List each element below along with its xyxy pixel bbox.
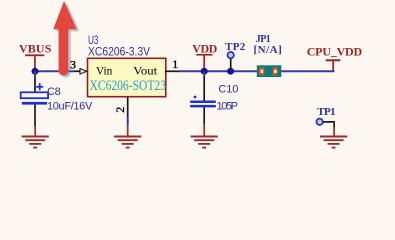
power port VBUS bar xyxy=(25,54,44,56)
big red arrow annotation xyxy=(53,1,76,76)
svg-text:[N/A]: [N/A] xyxy=(254,44,282,56)
capacitor C8 bottom plate xyxy=(22,102,47,105)
svg-text:VBUS: VBUS xyxy=(19,42,52,56)
pin TP2 xyxy=(230,58,232,69)
svg-text:TP2: TP2 xyxy=(225,41,246,53)
pin C8 top xyxy=(34,77,36,92)
capacitor C10 dot xyxy=(194,96,197,99)
jumper JP1 body xyxy=(257,65,282,77)
wire main horizontal net VDD xyxy=(35,70,74,72)
junction node VBUS xyxy=(32,68,39,75)
testpoint TP1 pad xyxy=(316,119,322,125)
pin C8 bottom xyxy=(34,105,36,126)
svg-text:Vin: Vin xyxy=(96,63,112,77)
power port VDD stem xyxy=(203,56,205,71)
capacitor C10 top plate xyxy=(190,101,216,104)
pin 2 line xyxy=(127,97,129,117)
pin C10 bottom xyxy=(203,107,205,124)
junction node TP2 xyxy=(227,68,234,75)
ground below TP1 xyxy=(320,127,347,148)
testpoint TP2 pad xyxy=(228,52,234,58)
capacitor C8 top plate xyxy=(21,92,48,98)
pin 1 line xyxy=(165,70,179,72)
svg-text:CPU_VDD: CPU_VDD xyxy=(307,44,363,58)
pin 3 input triangle xyxy=(80,69,87,75)
ground below C10 xyxy=(191,125,218,148)
svg-text:3: 3 xyxy=(70,58,76,72)
svg-text:TP1: TP1 xyxy=(317,106,335,118)
op chip body U3 xyxy=(88,58,166,96)
svg-text:C8: C8 xyxy=(47,86,61,98)
svg-text:VDD: VDD xyxy=(192,42,217,56)
wire pin3 segment xyxy=(74,70,88,72)
ground below C8 xyxy=(22,126,49,148)
svg-text:105P: 105P xyxy=(217,101,239,113)
wire VBUS down to C8 xyxy=(34,71,36,77)
svg-text:C10: C10 xyxy=(218,84,238,96)
svg-text:Vout: Vout xyxy=(133,63,158,77)
jumper JP1 pad 1 xyxy=(259,67,264,75)
svg-text:1: 1 xyxy=(172,57,178,71)
ground below pin 2 xyxy=(114,126,141,148)
power port VBUS stem xyxy=(34,56,36,70)
pin TP1 xyxy=(323,122,334,128)
capacitor C8 plus sign xyxy=(36,86,43,88)
power port CPU_VDD bar xyxy=(326,59,341,61)
capacitor C10 bottom plate xyxy=(190,105,216,108)
power port VDD bar xyxy=(196,54,212,56)
junction node VDD/C10 xyxy=(201,68,208,75)
svg-text:10uF/16V: 10uF/16V xyxy=(47,100,93,112)
svg-text:2: 2 xyxy=(113,107,127,113)
wire pin2 to ground xyxy=(127,117,129,126)
svg-text:XC6206-SOT23: XC6206-SOT23 xyxy=(90,78,167,94)
jumper JP1 pad 2 xyxy=(273,67,278,75)
wire VDD net xyxy=(179,70,335,72)
power port CPU_VDD stem xyxy=(332,61,334,71)
pin C10 top xyxy=(203,76,205,101)
wire down to C10 xyxy=(203,71,205,76)
svg-text:XC6206-3.3V: XC6206-3.3V xyxy=(88,44,150,58)
